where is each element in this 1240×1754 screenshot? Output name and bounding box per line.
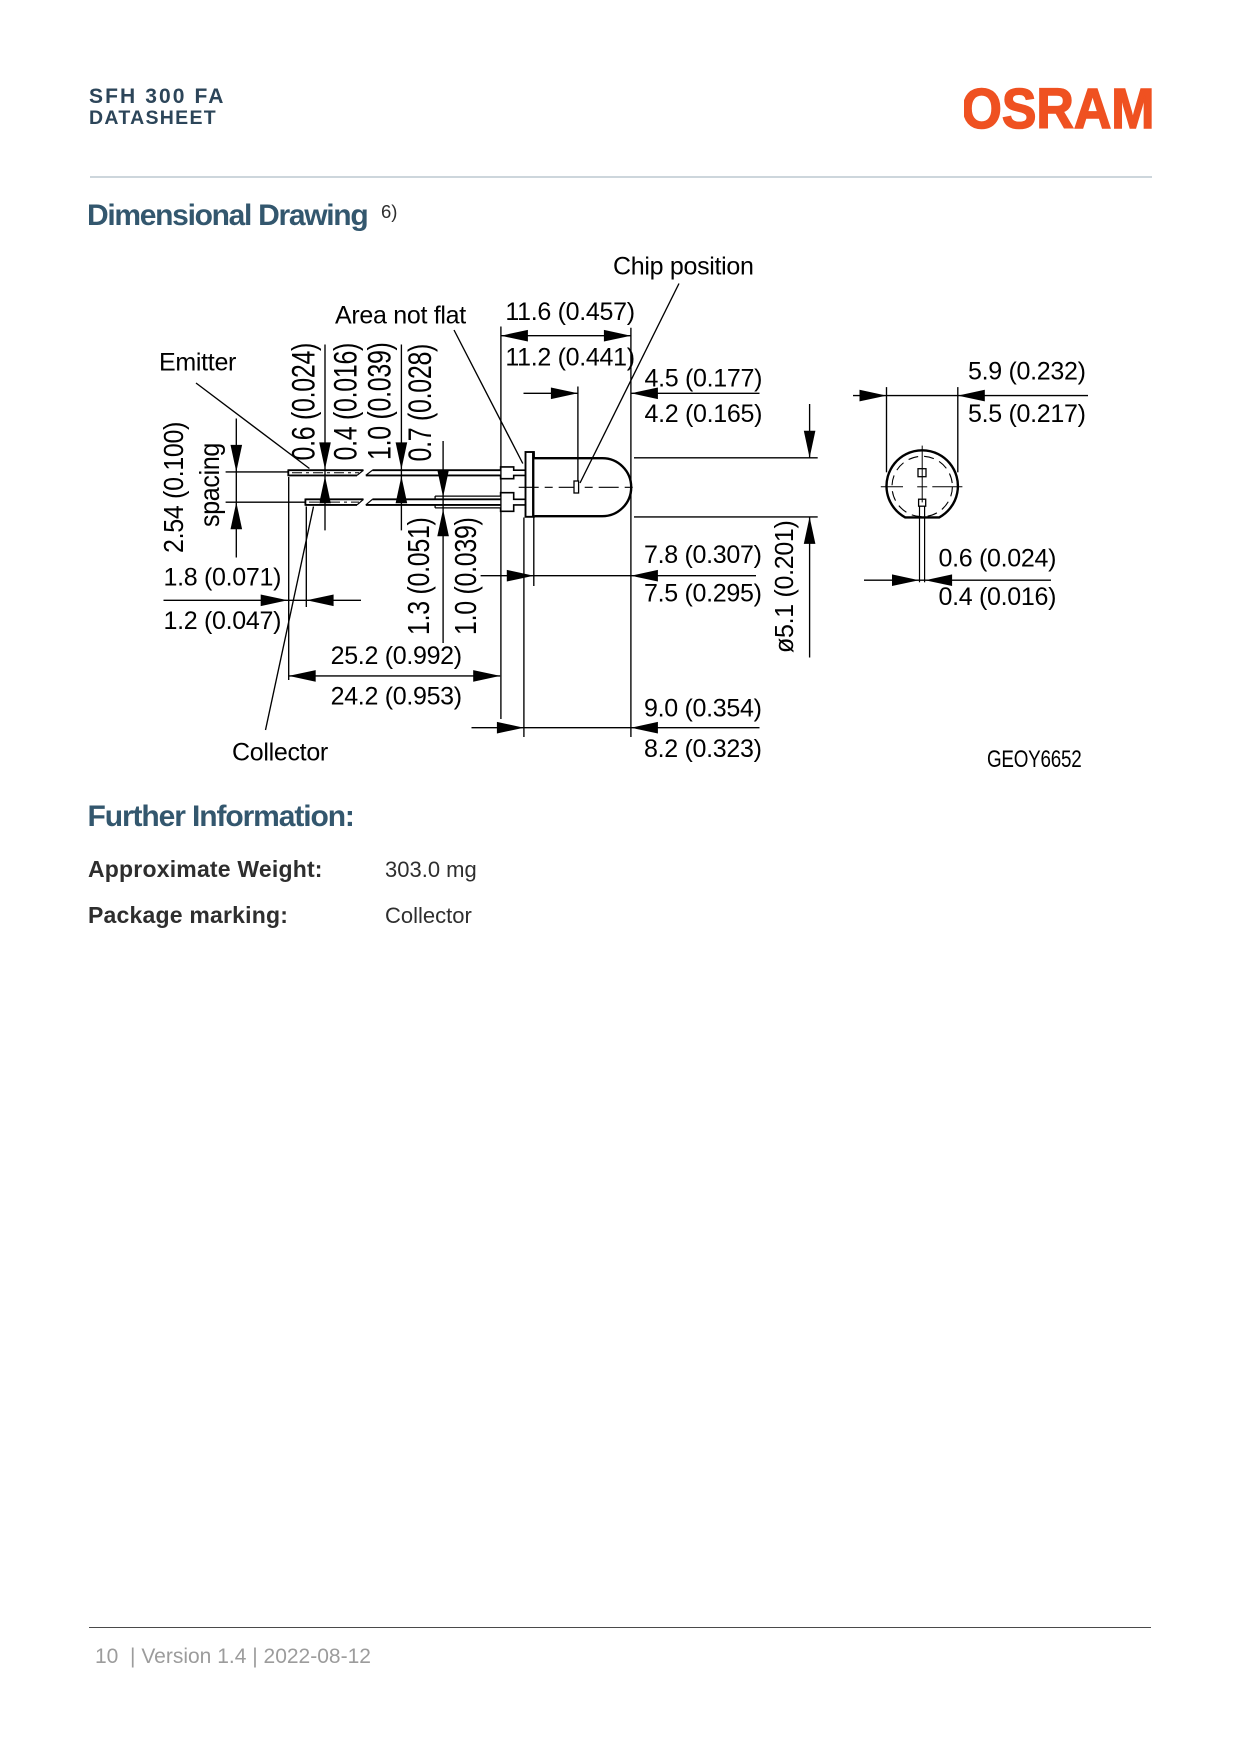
value 303.0 mg xyxy=(385,859,477,881)
label Package marking xyxy=(88,904,288,927)
extension line dome top edge xyxy=(634,457,818,459)
emitter lead right segment xyxy=(366,467,526,479)
footer page/version text xyxy=(95,1646,371,1667)
svg-text:Emitter: Emitter xyxy=(159,348,236,376)
svg-text:1.3 (0.051): 1.3 (0.051) xyxy=(401,517,435,635)
back view emitter lead pad xyxy=(918,469,926,477)
svg-text:24.2 (0.953): 24.2 (0.953) xyxy=(331,683,462,711)
svg-text:2.54 (0.100): 2.54 (0.100) xyxy=(158,422,189,553)
label GEOY6652 xyxy=(987,746,1082,773)
chip (inside dome) xyxy=(574,481,579,493)
back view collector lead pad xyxy=(919,499,926,506)
value Collector xyxy=(385,905,472,927)
svg-text:spacing: spacing xyxy=(194,443,225,527)
svg-text:0.4 (0.016): 0.4 (0.016) xyxy=(939,583,1057,611)
dimension 1.8/1.2 lead end offset xyxy=(164,564,362,636)
svg-text:Area not flat: Area not flat xyxy=(335,302,466,330)
label Collector xyxy=(232,739,328,767)
back view collector lead xyxy=(920,506,925,582)
extension line at collector lead end xyxy=(305,507,307,608)
label Approximate Weight xyxy=(88,858,323,881)
footnote mark 6) xyxy=(381,203,397,222)
product title SFH 300 FA xyxy=(89,86,226,107)
OSRAM logo xyxy=(964,86,1154,130)
svg-text:25.2 (0.992): 25.2 (0.992) xyxy=(331,642,462,670)
svg-text:0.4 (0.016): 0.4 (0.016) xyxy=(329,343,365,461)
package epoxy dome (side view) xyxy=(534,458,631,516)
dimension 1.0/0.7 lead thickness wide xyxy=(363,342,439,530)
svg-text:5.9 (0.232): 5.9 (0.232) xyxy=(968,358,1086,386)
svg-text:11.6 (0.457): 11.6 (0.457) xyxy=(505,298,634,326)
subtitle DATASHEET xyxy=(89,109,217,129)
dimension 25.2/24.2 lead length xyxy=(289,642,501,711)
section heading Further Information xyxy=(88,802,354,832)
svg-text:1.2 (0.047): 1.2 (0.047) xyxy=(164,607,282,635)
package centerline xyxy=(519,486,637,488)
back view extension line left xyxy=(886,387,888,472)
extension line at lead anchor xyxy=(500,327,502,720)
dimension 4.5/4.2 chip position xyxy=(524,365,763,428)
dimension dia 5.1 dome diameter xyxy=(771,404,816,658)
extension line collector lead axis xyxy=(226,501,306,503)
dimension 9.0/8.2 package total length xyxy=(472,694,762,763)
package flange (side view) xyxy=(526,452,534,517)
label Chip position xyxy=(613,253,754,281)
svg-text:0.6 (0.024): 0.6 (0.024) xyxy=(939,544,1057,572)
footer rule xyxy=(89,1627,1151,1628)
back view flange outline xyxy=(886,450,957,517)
extension line at chip position xyxy=(577,387,579,482)
svg-text:1.0 (0.039): 1.0 (0.039) xyxy=(448,517,482,635)
dimension 0.6/0.4 back lead width xyxy=(864,544,1056,611)
extension line dome bottom edge xyxy=(634,516,818,518)
svg-text:5.5 (0.217): 5.5 (0.217) xyxy=(968,400,1086,428)
svg-text:9.0 (0.354): 9.0 (0.354) xyxy=(644,694,762,722)
emitter lead left segment xyxy=(288,469,363,476)
collector lead right segment xyxy=(366,493,526,512)
section heading Dimensional Drawing xyxy=(87,201,367,231)
extension line emitter lead axis xyxy=(226,471,289,473)
dimension 0.6/0.4 emitter lead thickness xyxy=(287,343,364,530)
dimension 5.9/5.5 flange diameter xyxy=(853,358,1088,428)
svg-text:7.5 (0.295): 7.5 (0.295) xyxy=(644,580,762,608)
dimension 2.54 lead spacing xyxy=(158,419,242,558)
svg-text:0.7 (0.028): 0.7 (0.028) xyxy=(403,344,439,462)
svg-text:Collector: Collector xyxy=(232,739,328,767)
svg-text:4.2 (0.165): 4.2 (0.165) xyxy=(645,400,763,428)
svg-text:11.2 (0.441): 11.2 (0.441) xyxy=(505,344,634,372)
svg-text:0.6 (0.024): 0.6 (0.024) xyxy=(287,343,323,461)
extension line at dome tip xyxy=(630,328,632,737)
svg-text:ø5.1 (0.201): ø5.1 (0.201) xyxy=(771,520,800,653)
leader line Chip position xyxy=(580,284,679,484)
label Area not flat xyxy=(335,302,466,330)
back view horizontal centerline xyxy=(881,486,963,488)
dimension 7.8/7.5 dome length xyxy=(481,541,762,608)
extension line at emitter lead end xyxy=(288,477,290,680)
technical dimensional drawing xyxy=(0,0,1240,800)
header rule xyxy=(90,176,1152,178)
leader line Area not flat xyxy=(454,330,523,464)
dimension 11.6/11.2 package length xyxy=(501,298,635,372)
leader line Emitter xyxy=(196,383,309,469)
svg-text:7.8 (0.307): 7.8 (0.307) xyxy=(644,541,762,569)
collector lead left segment xyxy=(305,499,363,506)
extension line at flange left edge xyxy=(523,518,525,738)
leader line Collector xyxy=(266,507,314,731)
svg-text:4.5 (0.177): 4.5 (0.177) xyxy=(645,365,763,393)
svg-text:Chip position: Chip position xyxy=(613,253,754,281)
extension line at flange right edge xyxy=(533,518,535,587)
svg-text:8.2 (0.323): 8.2 (0.323) xyxy=(644,735,762,763)
svg-text:1.0 (0.039): 1.0 (0.039) xyxy=(363,342,399,460)
label Emitter xyxy=(159,348,236,376)
back view dome dashed circle xyxy=(892,456,952,516)
svg-text:1.8 (0.071): 1.8 (0.071) xyxy=(164,564,282,592)
dimension 1.3/1.0 collector lead wide section xyxy=(401,441,482,643)
back view extension line right xyxy=(957,387,959,472)
back view vertical centerline xyxy=(921,446,923,503)
svg-text:GEOY6652: GEOY6652 xyxy=(987,746,1082,773)
